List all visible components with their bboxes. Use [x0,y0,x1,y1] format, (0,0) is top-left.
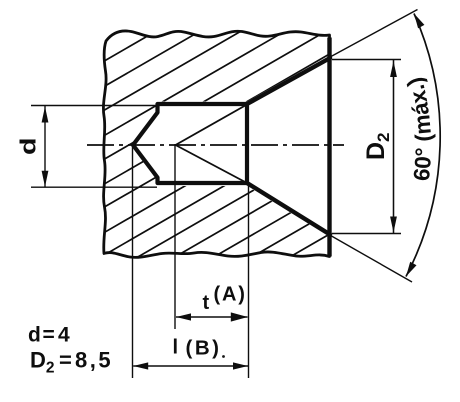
svg-text:(B): (B) [186,337,222,360]
dimension d line [44,106,46,187]
60-degree angle extension line lower [332,236,413,282]
dimension D2 extension lines [332,59,401,61]
workpiece break-line outline [103,31,329,257]
countersink cone lower edge [247,183,330,235]
arc arrow lower [406,262,417,277]
svg-text:l: l [173,337,179,359]
dimension t line [176,316,248,318]
extension line at cone apex [174,144,176,329]
svg-text:d=4: d=4 [28,324,70,347]
dimension D2 line [393,60,395,233]
60-degree dimension arc [406,14,440,277]
pilot hole outline with drill point [133,104,247,183]
dimension D2 arrows [390,61,397,77]
workpiece section hatching [0,18,460,270]
extension line at hole mouth [248,185,250,378]
dimension l line [133,365,248,367]
dimension d extension lines [31,105,157,107]
svg-text:D2=8,5: D2=8,5 [30,348,113,377]
svg-text:(A): (A) [214,284,247,306]
label d (rotated) [17,138,41,155]
60-degree angle extension line upper [331,10,418,57]
dimension t arrows [176,313,191,320]
workpiece right face line [327,38,331,257]
extension line at drill point apex [132,146,134,378]
dimension d arrows [42,107,49,123]
svg-text:t: t [203,292,210,314]
hole cavity (white) [133,56,330,238]
arc arrow upper [414,14,424,29]
centerline [87,144,344,146]
60-degree cone construction lines inside hole [176,105,248,184]
svg-text:d: d [17,138,41,155]
countersink cone upper edge [247,58,330,104]
dimension l arrows [133,362,148,369]
